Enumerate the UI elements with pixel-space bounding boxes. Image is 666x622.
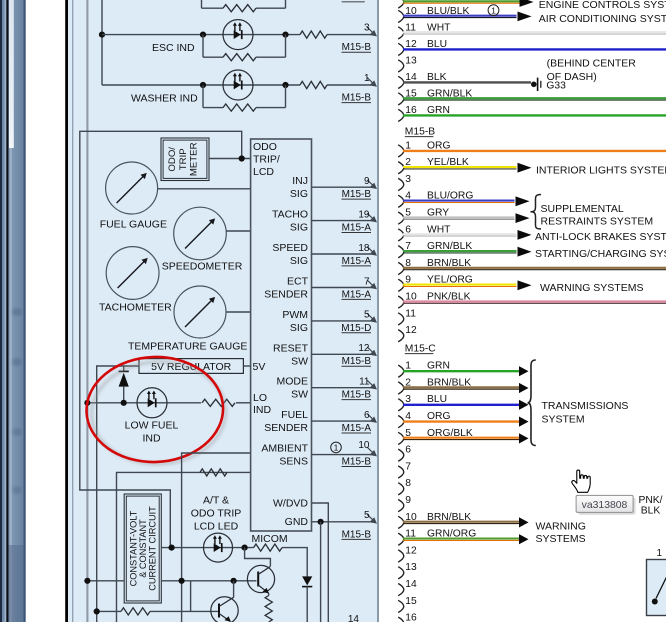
wire Q2 collector [233, 581, 235, 598]
svg-text:ODO: ODO [253, 141, 277, 153]
svg-text:FUEL: FUEL [281, 409, 308, 421]
svg-text:SENDER: SENDER [264, 289, 308, 301]
pin label W/DVD [273, 497, 308, 509]
label WARNING SYSTEMS 1 [540, 282, 643, 294]
wire ESC IND row [102, 34, 371, 36]
resistor ESC IND series [300, 31, 327, 38]
connector pin 12 BLU [398, 39, 666, 56]
connector M15-B pin 10 PNK/BLK [398, 292, 666, 309]
svg-text:12: 12 [405, 39, 417, 50]
svg-text:LOW FUEL: LOW FUEL [125, 420, 179, 432]
svg-text:ORG: ORG [427, 140, 450, 151]
svg-text:7: 7 [364, 276, 370, 287]
svg-text:5V: 5V [253, 361, 266, 373]
svg-text:8: 8 [405, 478, 411, 489]
svg-text:6: 6 [364, 410, 370, 421]
svg-text:SENDER: SENDER [264, 422, 308, 434]
transistor Q1 [247, 565, 274, 593]
inner frame line [72, 0, 74, 622]
connector M15-B pin 3 [398, 174, 411, 191]
brace transmissions [528, 360, 536, 446]
svg-text:ODO/: ODO/ [167, 147, 178, 172]
svg-text:BLU: BLU [427, 39, 447, 50]
connector M15-B pin 12 [398, 325, 417, 342]
svg-text:BLU: BLU [427, 394, 447, 405]
svg-text:SIG: SIG [290, 222, 308, 234]
connector M15-B pin 11 [398, 308, 416, 325]
cut-off indicator loop wires [202, 0, 286, 8]
label 5V REGULATOR [151, 361, 232, 373]
wire LOW FUEL row [87, 402, 250, 404]
svg-text:AMBIENT: AMBIENT [261, 443, 308, 455]
connector M15-C pin 4 ORG [398, 411, 528, 428]
svg-text:M15-A: M15-A [342, 423, 372, 434]
svg-text:5: 5 [364, 510, 370, 521]
svg-text:14: 14 [348, 614, 360, 622]
wire SPEED exit [312, 253, 372, 255]
wire jog 190 [190, 581, 192, 612]
svg-text:STARTING/CHARGING SYSTEM: STARTING/CHARGING SYSTEM [535, 248, 666, 260]
svg-text:SIG: SIG [290, 188, 308, 200]
connector pin 13 [398, 55, 417, 72]
exit arrow 10 M15-B [331, 440, 377, 467]
wire INJ exit [312, 186, 372, 188]
svg-text:CONSTANT-VOLT: CONSTANT-VOLT [129, 510, 139, 586]
pin label MODE SW [277, 376, 309, 401]
svg-text:SIG: SIG [290, 322, 308, 334]
svg-text:CURRENT CIRCUIT: CURRENT CIRCUIT [148, 506, 158, 591]
label WARNING SYSTEMS 2 [536, 520, 586, 545]
pin label AMBIENT SENS [261, 443, 308, 468]
LED A/T ODO TRIP [204, 533, 233, 562]
svg-text:WASHER IND: WASHER IND [131, 93, 198, 105]
wire Q1 emitter to resistor [268, 593, 270, 595]
diode D2 [302, 576, 312, 622]
svg-text:M15-D: M15-D [341, 323, 371, 334]
node ESC IND bypass left [200, 31, 206, 37]
LED WASHER IND [223, 70, 253, 100]
node LOW FUEL bus [84, 400, 90, 406]
resistor (cut-off indicator) [223, 5, 256, 12]
wire TACHO exit [312, 220, 372, 222]
label 5V [253, 361, 266, 373]
wire 5V reg to box [243, 365, 250, 367]
svg-text:11: 11 [405, 308, 416, 319]
svg-text:M15-A: M15-A [342, 256, 372, 267]
svg-text:GRN: GRN [427, 361, 450, 372]
svg-text:ENGINE CONTROLS SYSTEM: ENGINE CONTROLS SYSTEM [539, 0, 666, 11]
node diode junction [121, 400, 127, 406]
svg-text:16: 16 [405, 613, 417, 622]
svg-text:SPEEDOMETER: SPEEDOMETER [162, 261, 243, 273]
svg-text:ANTI-LOCK BRAKES SYSTEM: ANTI-LOCK BRAKES SYSTEM [535, 231, 666, 243]
connector pin 11 WHT [398, 22, 666, 39]
label WASHER IND [131, 93, 198, 105]
svg-text:LCD LED: LCD LED [194, 521, 239, 533]
exit arrow 18 M15-A [342, 243, 378, 267]
pin label ECT SENDER [264, 276, 308, 301]
diode D1 [119, 366, 129, 403]
connector M15-C pin 8 [398, 478, 411, 495]
label TACHOMETER [99, 302, 172, 314]
connector M15-B pin 7 GRN/BLK [398, 241, 531, 258]
svg-text:1: 1 [364, 73, 370, 84]
svg-text:SUPPLEMENTAL: SUPPLEMENTAL [541, 203, 624, 215]
svg-text:11: 11 [359, 377, 370, 388]
box ODO/TRIP/METER [161, 138, 209, 181]
svg-text:M15-B: M15-B [405, 127, 435, 138]
pin label GND [285, 516, 309, 528]
connector M15-C pin 5 ORG/BLK [398, 428, 528, 445]
svg-text:W/DVD: W/DVD [273, 497, 308, 509]
svg-text:va313808: va313808 [582, 500, 628, 511]
label ODO TRIP/ LCD [253, 141, 280, 178]
exit arrow 5 M15-D [341, 310, 377, 334]
wire FUEL GAUGE to box [158, 188, 251, 190]
node 233 580 [231, 578, 237, 584]
svg-text:TRIP: TRIP [178, 148, 189, 170]
gauge FUEL GAUGE [106, 162, 158, 214]
pin label SPEED SIG [272, 242, 308, 267]
wire Q1 collector branch [245, 548, 271, 567]
resistor WASHER IND series [300, 81, 327, 88]
exit arrow 1 M15-B [342, 73, 378, 104]
connector M15-B pin 6 WHT [398, 224, 531, 241]
svg-text:M15-B: M15-B [342, 42, 372, 53]
svg-text:G33: G33 [546, 81, 566, 92]
connector M15-B pin 5 GRY [398, 208, 529, 225]
node ESC left [99, 31, 105, 37]
svg-text:1: 1 [491, 5, 496, 15]
ground G33 [531, 78, 566, 92]
svg-text:WARNING SYSTEMS: WARNING SYSTEMS [540, 282, 643, 294]
label ODO/TRIP/METER [167, 142, 200, 176]
svg-text:16: 16 [405, 105, 417, 116]
wire ESC IND bypass loop [203, 35, 286, 58]
svg-text:LCD: LCD [253, 166, 274, 178]
connector pin 10 BLU/BLK [398, 6, 531, 23]
svg-text:15: 15 [405, 596, 417, 607]
wire WASHER IND row [102, 84, 371, 86]
label TRANSMISSIONS SYSTEM [542, 400, 629, 425]
node GND [318, 519, 324, 525]
svg-text:6: 6 [405, 445, 411, 456]
svg-text:MODE: MODE [277, 376, 309, 388]
connector header M15-C [405, 344, 436, 355]
wire resistor row 472 [117, 472, 251, 622]
svg-text:18: 18 [358, 243, 370, 254]
connector M15-B pin 4 BLU/ORG [398, 191, 529, 208]
svg-text:5: 5 [364, 310, 370, 321]
svg-text:M15-B: M15-B [342, 356, 372, 367]
svg-text:1: 1 [405, 361, 411, 372]
wire MODE exit [312, 387, 372, 389]
vertical wire to indicator rows [101, 0, 103, 85]
svg-text:ODO TRIP: ODO TRIP [191, 508, 242, 520]
wire METER to LCD box [209, 158, 251, 160]
wire base row 580 [87, 580, 256, 582]
svg-text:ECT: ECT [287, 276, 309, 288]
svg-text:SENS: SENS [279, 456, 308, 468]
exit arrow 12 M15-B [342, 343, 378, 367]
svg-text:GND: GND [285, 516, 309, 528]
label ANTI-LOCK BRAKES SYSTE [535, 231, 666, 243]
resistor R emitter vertical [265, 596, 272, 622]
svg-text:& CONSTANT: & CONSTANT [138, 519, 148, 578]
svg-text:13: 13 [405, 562, 417, 573]
ground symbol box [647, 560, 666, 616]
connector pin 14 BLK [398, 72, 531, 89]
svg-text:ORG: ORG [427, 411, 450, 422]
vertical bus wire [86, 0, 88, 622]
svg-text:TRIP/: TRIP/ [253, 154, 280, 166]
wire ECT exit [312, 287, 372, 289]
connector M15-C pin 11 GRN/ORG [398, 529, 528, 546]
label INTERIOR LIGHTS SYSTEM [536, 164, 666, 176]
svg-text:IND: IND [253, 404, 272, 416]
label SUPPLEMENTAL RESTRAINTS SYSTEM [541, 203, 654, 227]
connector M15-C pin 13 [398, 562, 417, 579]
wire base row 611 [97, 610, 219, 612]
connector pin 16 GRN [398, 105, 666, 122]
label AIR CONDITIONING SYSTE [539, 13, 666, 25]
connector pin 9 wire GRN/ORG [398, 0, 533, 8]
svg-text:SIG: SIG [290, 255, 308, 267]
svg-text:M15-B: M15-B [342, 390, 372, 401]
connector M15-B pin 2 YEL/BLK [398, 157, 531, 174]
svg-text:INTERIOR LIGHTS SYSTEM: INTERIOR LIGHTS SYSTEM [536, 164, 666, 176]
svg-text:14: 14 [405, 579, 417, 590]
svg-text:ESC IND: ESC IND [152, 42, 195, 54]
svg-text:MICOM: MICOM [252, 533, 288, 545]
svg-text:SPEED: SPEED [272, 242, 308, 254]
label A/T & ODO TRIP LCD LED [191, 495, 242, 533]
node WASHER IND bypass right [282, 82, 288, 88]
node MICOM right [242, 545, 248, 551]
mouse cursor [572, 470, 590, 492]
wire GND down [320, 522, 322, 622]
connector M15-C pin 1 GRN [398, 361, 528, 378]
node WASHER IND bypass left [200, 82, 206, 88]
svg-text:PNK/: PNK/ [638, 495, 662, 506]
IC box ODO TRIP/LCD [251, 139, 312, 531]
svg-text:4: 4 [405, 411, 411, 422]
svg-text:M15-B: M15-B [342, 457, 372, 468]
gauge TEMPERATURE GAUGE [174, 286, 226, 338]
svg-text:TACHO: TACHO [272, 209, 308, 221]
wire ambient row [182, 453, 251, 622]
label ESC IND [152, 42, 195, 54]
svg-text:1: 1 [405, 140, 411, 151]
svg-text:M15-B: M15-B [342, 529, 372, 540]
pin label FUEL SENDER [264, 409, 308, 434]
svg-text:12: 12 [358, 343, 370, 354]
svg-text:METER: METER [189, 142, 200, 176]
label FUEL GAUGE [100, 219, 167, 231]
pin label PWM SIG [282, 309, 308, 334]
connector M15-C pin 2 BRN/BLK [398, 377, 528, 394]
connector M15-C pin 10 BRN/BLK [398, 512, 528, 529]
svg-text:RESTRAINTS SYSTEM: RESTRAINTS SYSTEM [541, 215, 654, 227]
wire RESET exit [312, 353, 372, 355]
svg-text:AIR CONDITIONING SYSTEM: AIR CONDITIONING SYSTEM [539, 13, 666, 25]
wire 5V reg left + down [97, 366, 139, 622]
resistor R472 [200, 469, 227, 476]
connector M15-C pin 15 [398, 596, 417, 613]
svg-text:LO: LO [253, 392, 267, 404]
exit arrow 11 M15-B [342, 377, 378, 401]
svg-text:14: 14 [405, 72, 417, 83]
label STARTING/CHARGING SYST [535, 248, 666, 260]
diagram canvas left border [65, 0, 68, 622]
LED ESC IND [223, 20, 253, 50]
exit arrow 3 M15-B [342, 23, 378, 54]
wire WASHER IND bypass loop [203, 85, 286, 108]
gauge TACHOMETER [106, 247, 159, 300]
label LO IND [253, 392, 272, 416]
exit arrow 19 M15-A [342, 209, 378, 233]
gauge SPEEDOMETER [174, 207, 227, 260]
svg-text:12: 12 [405, 325, 417, 336]
svg-text:1: 1 [657, 548, 663, 559]
annotation red ellipse [85, 355, 228, 467]
svg-text:M15-B: M15-B [342, 93, 372, 104]
connector M15-B pin 9 YEL/ORG [398, 275, 531, 292]
connector M15-C pin 6 [398, 445, 411, 462]
LED LOW FUEL IND [137, 388, 167, 418]
label PNK/BLK [638, 495, 662, 517]
window edge strip [0, 0, 26, 622]
svg-text:M15-A: M15-A [342, 289, 372, 300]
svg-text:13: 13 [405, 55, 417, 66]
connector M15-C pin 3 BLU [398, 394, 528, 411]
svg-text:WARNING: WARNING [536, 520, 586, 532]
svg-text:RESET: RESET [273, 342, 309, 354]
svg-text:IND: IND [142, 433, 161, 445]
wire MICOM row [161, 547, 253, 549]
svg-text:M15-C: M15-C [405, 344, 436, 355]
exit arrow 5 M15-B GND [342, 510, 378, 541]
svg-text:3: 3 [364, 23, 370, 34]
svg-text:BLK: BLK [427, 72, 447, 83]
label TEMPERATURE GAUGE [128, 341, 247, 353]
resistor LOW FUEL [202, 399, 235, 406]
cut-off exit label underline [342, 1, 365, 3]
svg-text:TRANSMISSIONS: TRANSMISSIONS [542, 400, 629, 412]
node bus 580 [84, 578, 90, 584]
svg-text:SYSTEM: SYSTEM [542, 413, 585, 425]
resistor R611 [121, 608, 150, 615]
resistor ESC IND bypass [223, 54, 256, 61]
node MICOM left [169, 545, 175, 551]
connector M15-B pin 8 BRN/BLK [398, 258, 666, 275]
label LOW FUEL IND [125, 420, 179, 445]
node 181 580 [179, 578, 185, 584]
wire GND exit [312, 521, 372, 523]
wire AMBIENT exit [312, 454, 372, 456]
node ESC IND bypass right [282, 31, 288, 37]
box 5V REGULATOR [139, 359, 243, 374]
connector header M15-B [405, 127, 435, 138]
svg-text:M15-A: M15-A [342, 223, 372, 234]
tooltip va313808 [576, 495, 635, 514]
wire W/DVD [312, 503, 329, 622]
label 1 note [657, 548, 663, 559]
wire PWM exit [312, 320, 372, 322]
pin label TACHO SIG [272, 209, 308, 234]
node ODO junction [239, 155, 245, 161]
exit arrow 7 M15-A [342, 276, 378, 300]
node 96 611 [94, 608, 100, 614]
svg-text:SW: SW [291, 389, 308, 401]
connector M15-C pin 16 [398, 613, 417, 622]
svg-text:FUEL GAUGE: FUEL GAUGE [100, 219, 167, 231]
svg-text:19: 19 [358, 209, 370, 220]
connector pin 15 GRN/BLK [398, 88, 666, 105]
label MICOM [252, 533, 288, 545]
note circled 1 [488, 5, 499, 16]
box CONSTANT-VOLT CIRCUIT [124, 494, 161, 603]
wire FUEL exit [312, 420, 372, 422]
svg-text:PWM: PWM [282, 309, 308, 321]
svg-text:TACHOMETER: TACHOMETER [99, 302, 172, 314]
svg-text:BLK: BLK [641, 506, 661, 517]
connector M15-C pin 9 [398, 495, 411, 512]
wire TEMPERATURE to box [226, 311, 251, 313]
svg-text:(BEHIND CENTER: (BEHIND CENTER [547, 58, 637, 70]
label CONSTANT-VOLT circuit [129, 506, 158, 591]
exit arrow 6 M15-A [342, 410, 378, 434]
connector M15-C pin 7 [398, 461, 411, 478]
svg-text:9: 9 [405, 495, 411, 506]
svg-text:7: 7 [405, 461, 411, 472]
wire SPEEDOMETER to box [226, 230, 250, 232]
transistor Q2 [211, 597, 238, 622]
exit arrow 9 M15-B [342, 176, 378, 200]
label ENGINE CONTROLS SYST [539, 0, 666, 11]
wire ODO meter routing [80, 131, 242, 547]
exit label 14 bottom [348, 614, 360, 622]
diagram canvas right border [377, 0, 379, 622]
svg-text:GRN: GRN [427, 105, 450, 116]
label BEHIND CENTER OF DASH [547, 58, 637, 83]
resistor WASHER IND bypass [223, 104, 256, 111]
svg-text:12: 12 [405, 545, 417, 556]
svg-text:9: 9 [364, 176, 370, 187]
wire MICOM to diode branch [282, 548, 307, 577]
connector M15-C pin 12 [398, 545, 417, 562]
brace supplemental [531, 195, 542, 229]
svg-text:SW: SW [291, 355, 308, 367]
svg-text:SYSTEMS: SYSTEMS [536, 533, 586, 545]
svg-text:3: 3 [405, 394, 411, 405]
connector M15-B pin 1 ORG [398, 140, 666, 157]
svg-text:TEMPERATURE GAUGE: TEMPERATURE GAUGE [128, 341, 247, 353]
svg-text:1: 1 [334, 443, 339, 453]
label SPEEDOMETER [162, 261, 243, 273]
svg-text:3: 3 [405, 174, 411, 185]
resistor MICOM [254, 544, 282, 551]
svg-text:A/T &: A/T & [203, 495, 229, 507]
svg-text:INJ: INJ [292, 175, 308, 187]
pin label INJ SIG [290, 175, 308, 200]
svg-text:M15-B: M15-B [342, 189, 372, 200]
pin label RESET SW [273, 342, 309, 367]
svg-text:10: 10 [358, 440, 370, 451]
connector M15-C pin 14 [398, 579, 417, 596]
